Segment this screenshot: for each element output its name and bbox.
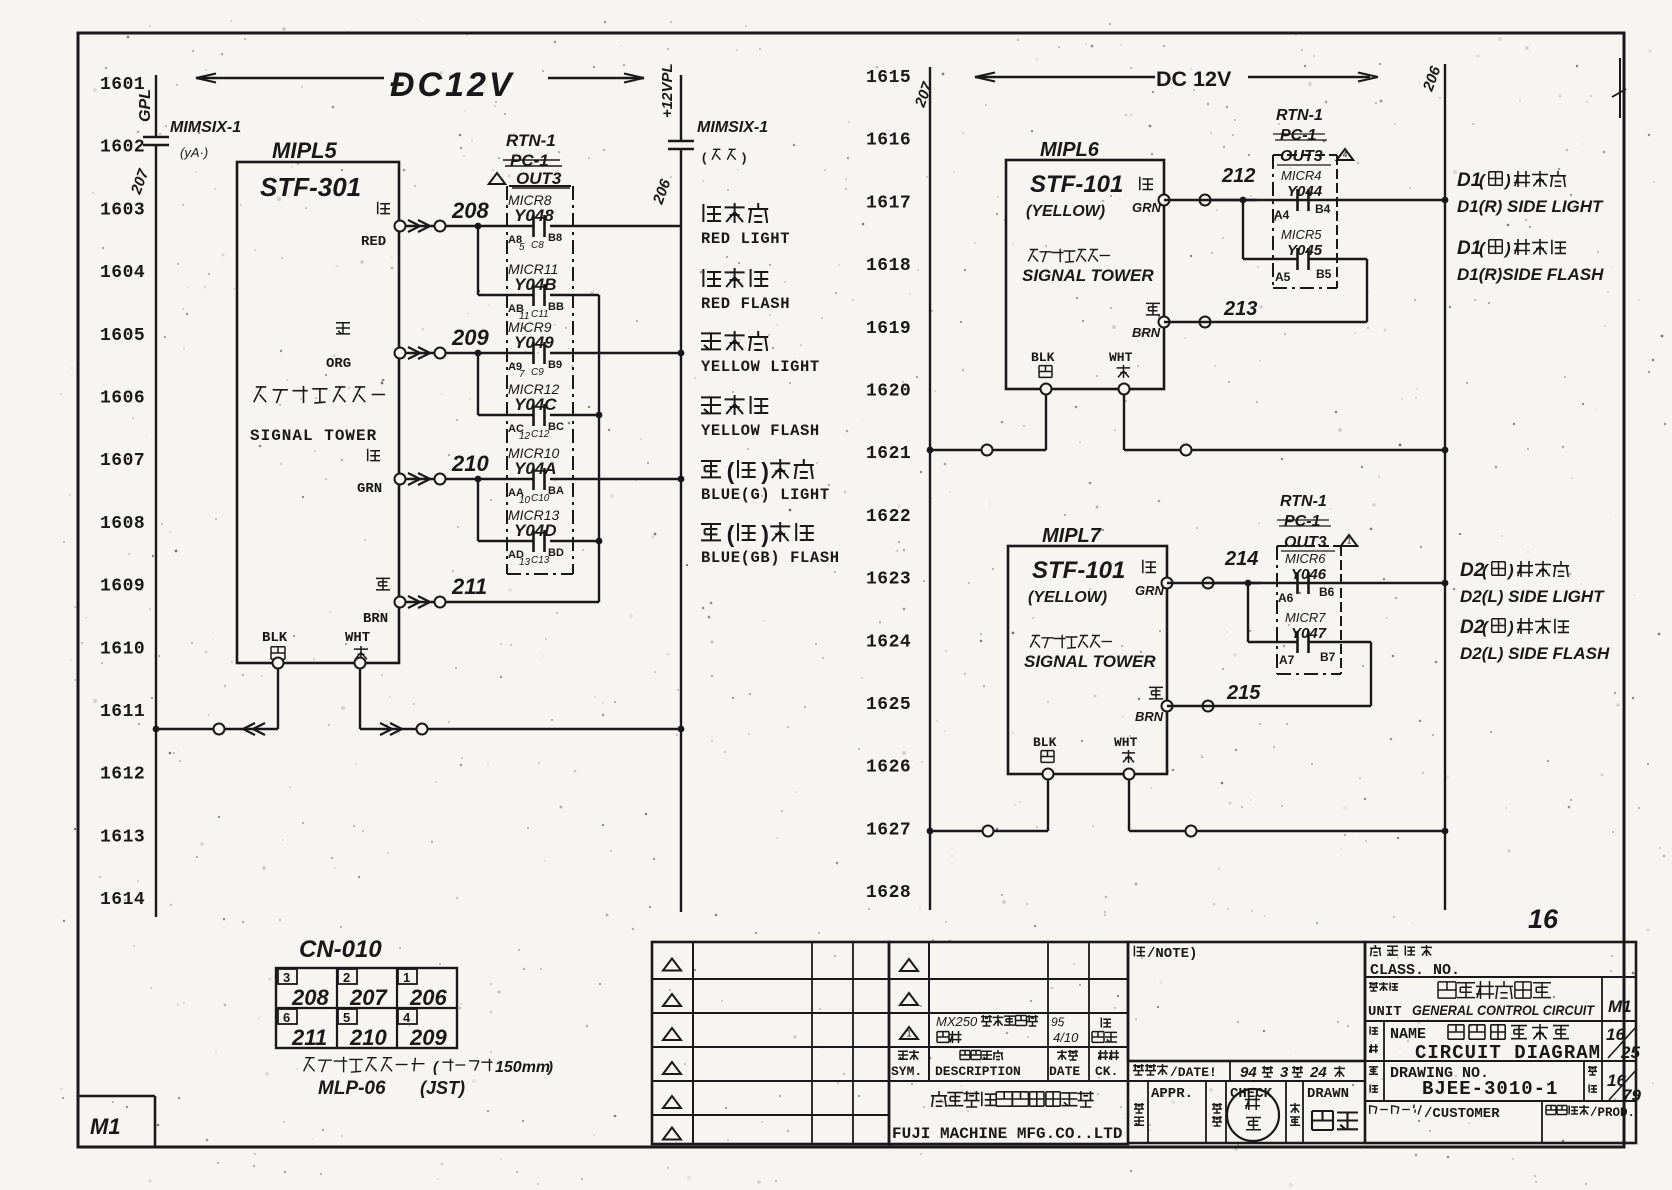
svg-text:SYM.: SYM. <box>891 1064 922 1079</box>
svg-text:25: 25 <box>1620 1043 1640 1062</box>
svg-text:M1: M1 <box>1608 997 1632 1016</box>
svg-text:B8: B8 <box>548 232 562 244</box>
svg-text:(YELLOW): (YELLOW) <box>1026 203 1105 220</box>
svg-text:OUT3: OUT3 <box>516 169 562 188</box>
svg-text:24: 24 <box>1309 1064 1327 1081</box>
svg-text:): ) <box>761 521 769 547</box>
svg-text:206: 206 <box>409 985 447 1010</box>
svg-text:BRN: BRN <box>363 611 388 627</box>
svg-text:OUT3: OUT3 <box>1284 534 1327 551</box>
svg-text:2: 2 <box>343 970 350 985</box>
svg-text:1: 1 <box>906 1029 911 1039</box>
svg-text:212: 212 <box>1221 165 1255 187</box>
svg-text:213: 213 <box>1223 298 1257 320</box>
svg-text:1609: 1609 <box>100 577 145 597</box>
svg-text:1601: 1601 <box>100 75 145 95</box>
svg-text:RTN-1: RTN-1 <box>1280 493 1327 510</box>
svg-text:B5: B5 <box>1316 267 1332 281</box>
svg-text:YELLOW LIGHT: YELLOW LIGHT <box>701 358 820 376</box>
svg-text:GRN: GRN <box>1135 583 1165 598</box>
svg-text:16: 16 <box>1528 904 1559 934</box>
svg-text:C10: C10 <box>531 493 550 504</box>
svg-text:215: 215 <box>1226 682 1261 704</box>
svg-text:1620: 1620 <box>866 382 911 402</box>
svg-text:YELLOW FLASH: YELLOW FLASH <box>701 422 820 440</box>
svg-text:Y047: Y047 <box>1291 625 1327 642</box>
svg-text:BRN: BRN <box>1132 325 1161 340</box>
svg-text:1602: 1602 <box>100 138 145 158</box>
svg-text:APPR.: APPR. <box>1151 1086 1193 1102</box>
svg-text:1625: 1625 <box>866 695 911 715</box>
svg-text:MIMSIX-1: MIMSIX-1 <box>170 119 241 136</box>
svg-text:PC-1: PC-1 <box>1284 513 1321 530</box>
svg-text:13: 13 <box>519 557 531 568</box>
svg-text:GRN: GRN <box>357 481 382 497</box>
svg-text:FUJI MACHINE MFG.CO..LTD: FUJI MACHINE MFG.CO..LTD <box>892 1125 1122 1143</box>
svg-text:1622: 1622 <box>866 507 911 527</box>
svg-text:STF-301: STF-301 <box>260 172 361 202</box>
svg-text:DATE: DATE <box>1049 1064 1080 1079</box>
svg-text:4: 4 <box>1343 151 1348 160</box>
svg-text:): ) <box>1506 561 1514 580</box>
svg-text:208: 208 <box>451 198 489 223</box>
svg-text:M1: M1 <box>90 1114 121 1139</box>
svg-text:SIGNAL TOWER: SIGNAL TOWER <box>1024 652 1156 671</box>
svg-text:1618: 1618 <box>866 256 911 276</box>
svg-text:1605: 1605 <box>100 326 145 346</box>
svg-text:4/10: 4/10 <box>1053 1030 1079 1045</box>
svg-text:209: 209 <box>409 1025 447 1050</box>
svg-text:MICR6: MICR6 <box>1285 551 1326 566</box>
svg-text:(YELLOW): (YELLOW) <box>1028 589 1107 606</box>
svg-text:MICR4: MICR4 <box>1281 168 1321 183</box>
svg-text:+12VPL: +12VPL <box>659 63 676 118</box>
svg-text:UNIT: UNIT <box>1368 1004 1402 1020</box>
svg-text:D1(R) SIDE LIGHT: D1(R) SIDE LIGHT <box>1457 197 1604 216</box>
svg-text:5: 5 <box>519 242 525 253</box>
svg-text:Y04A: Y04A <box>514 459 557 478</box>
svg-text:A5: A5 <box>1275 270 1291 284</box>
svg-text:94: 94 <box>1240 1064 1257 1081</box>
svg-text:1610: 1610 <box>100 639 145 659</box>
svg-text:A6: A6 <box>1278 591 1294 605</box>
svg-text:1627: 1627 <box>866 820 911 840</box>
svg-text:MIPL5: MIPL5 <box>272 138 338 163</box>
svg-text:PC-1: PC-1 <box>1280 127 1317 144</box>
svg-text:1606: 1606 <box>100 389 145 409</box>
svg-text:3: 3 <box>283 970 290 985</box>
svg-text:1613: 1613 <box>100 827 145 847</box>
svg-text:1607: 1607 <box>100 451 145 471</box>
svg-text:Y049: Y049 <box>514 333 554 352</box>
svg-text:3: 3 <box>1280 1064 1289 1081</box>
svg-text:BLUE(GB) FLASH: BLUE(GB) FLASH <box>701 549 840 567</box>
svg-text:BLK: BLK <box>262 630 288 646</box>
svg-text:BB: BB <box>548 301 564 313</box>
svg-text:(: ( <box>702 150 707 165</box>
svg-text:C12: C12 <box>531 429 550 440</box>
svg-text:WHT: WHT <box>345 630 370 646</box>
svg-text:5: 5 <box>343 1010 350 1025</box>
svg-text:RED: RED <box>361 234 386 250</box>
svg-text:BJEE-3010-1: BJEE-3010-1 <box>1422 1078 1558 1100</box>
svg-text:GENERAL CONTROL CIRCUIT: GENERAL CONTROL CIRCUIT <box>1412 1002 1595 1018</box>
svg-text:DESCRIPTION: DESCRIPTION <box>935 1064 1021 1079</box>
svg-text:CIRCUIT DIAGRAM: CIRCUIT DIAGRAM <box>1415 1042 1601 1064</box>
svg-text:4: 4 <box>403 1010 411 1025</box>
svg-text:209: 209 <box>451 325 489 350</box>
svg-text:BC: BC <box>548 421 564 433</box>
svg-text:): ) <box>742 150 746 165</box>
svg-text:MIMSIX-1: MIMSIX-1 <box>697 119 768 136</box>
svg-text:C13: C13 <box>531 555 550 566</box>
svg-text:B7: B7 <box>1320 650 1336 664</box>
svg-text:CN-010: CN-010 <box>299 936 382 963</box>
svg-text:CLASS. NO.: CLASS. NO. <box>1370 962 1460 979</box>
svg-text:1615: 1615 <box>866 68 911 88</box>
svg-text:A4: A4 <box>1274 208 1290 222</box>
svg-text:Y044: Y044 <box>1287 183 1323 200</box>
svg-text:): ) <box>1506 618 1514 637</box>
svg-text:10: 10 <box>519 495 531 506</box>
svg-text:ORG: ORG <box>326 356 351 372</box>
svg-text:210: 210 <box>349 1025 387 1050</box>
svg-text:RTN-1: RTN-1 <box>1276 107 1323 124</box>
svg-text:MIPL7: MIPL7 <box>1042 525 1102 547</box>
svg-text:D1: D1 <box>1457 238 1481 259</box>
svg-text:/NOTE): /NOTE) <box>1147 946 1197 962</box>
svg-text:(yA·): (yA·) <box>180 145 208 160</box>
svg-text:1614: 1614 <box>100 890 145 910</box>
svg-text:211: 211 <box>291 1025 327 1050</box>
svg-text:MICR7: MICR7 <box>1285 610 1326 625</box>
svg-text:): ) <box>1503 171 1511 190</box>
svg-text:RED FLASH: RED FLASH <box>701 295 790 313</box>
svg-text:WHT: WHT <box>1114 735 1138 750</box>
svg-text:D1(R)SIDE FLASH: D1(R)SIDE FLASH <box>1457 265 1604 284</box>
svg-text:Y04D: Y04D <box>514 521 557 540</box>
svg-text:B9: B9 <box>548 359 562 371</box>
svg-text:95: 95 <box>1051 1015 1065 1029</box>
svg-text:Y046: Y046 <box>1291 566 1327 583</box>
svg-text:DRAWN: DRAWN <box>1307 1086 1349 1102</box>
svg-text:Y04C: Y04C <box>514 395 557 414</box>
svg-text:D2: D2 <box>1460 617 1485 638</box>
svg-text:1608: 1608 <box>100 514 145 534</box>
svg-text:1624: 1624 <box>866 632 911 652</box>
svg-text:BLK: BLK <box>1031 350 1055 365</box>
svg-text:STF-101: STF-101 <box>1030 171 1123 198</box>
svg-text:(: ( <box>727 521 735 547</box>
svg-text:(JST): (JST) <box>420 1078 465 1098</box>
svg-text:Y04B: Y04B <box>514 275 557 294</box>
svg-text:1: 1 <box>403 970 410 985</box>
svg-text:A7: A7 <box>1279 653 1295 667</box>
svg-text:WHT: WHT <box>1109 350 1133 365</box>
svg-text:150mm: 150mm <box>495 1059 550 1076</box>
svg-text:(: ( <box>727 458 735 484</box>
svg-text:RED LIGHT: RED LIGHT <box>701 230 790 248</box>
svg-text:/PROD.: /PROD. <box>1590 1106 1635 1120</box>
svg-text:B6: B6 <box>1319 585 1335 599</box>
svg-text:OUT3: OUT3 <box>1280 148 1323 165</box>
svg-text:BA: BA <box>548 485 564 497</box>
svg-text:1619: 1619 <box>866 319 911 339</box>
svg-text:): ) <box>761 458 769 484</box>
svg-text:MICR5: MICR5 <box>1281 227 1322 242</box>
svg-text:211: 211 <box>451 574 487 599</box>
svg-text:DC 12V: DC 12V <box>1156 67 1232 91</box>
svg-text:1621: 1621 <box>866 444 911 464</box>
svg-text:SIGNAL TOWER: SIGNAL TOWER <box>1022 266 1154 285</box>
svg-text:B4: B4 <box>1315 202 1331 216</box>
svg-text:1623: 1623 <box>866 570 911 590</box>
svg-text:207: 207 <box>349 985 388 1010</box>
svg-text:BLUE(G) LIGHT: BLUE(G) LIGHT <box>701 486 830 504</box>
svg-text:1603: 1603 <box>100 200 145 220</box>
svg-text:D1: D1 <box>1457 170 1481 191</box>
svg-text:1604: 1604 <box>100 263 145 283</box>
svg-text:MLP-06: MLP-06 <box>318 1078 386 1099</box>
svg-text:Y045: Y045 <box>1287 242 1323 259</box>
svg-text:BD: BD <box>548 547 564 559</box>
svg-text:MX250: MX250 <box>936 1014 978 1029</box>
svg-text:SIGNAL TOWER: SIGNAL TOWER <box>250 427 377 445</box>
svg-text:214: 214 <box>1224 548 1258 570</box>
svg-text:BLK: BLK <box>1033 735 1057 750</box>
svg-text:BRN: BRN <box>1135 709 1164 724</box>
svg-text:C8: C8 <box>531 240 544 251</box>
svg-text:MIPL6: MIPL6 <box>1040 139 1100 161</box>
svg-text:1628: 1628 <box>866 883 911 903</box>
svg-text:): ) <box>546 1059 553 1076</box>
svg-text:C9: C9 <box>531 367 544 378</box>
svg-text:210: 210 <box>451 451 489 476</box>
svg-text:1626: 1626 <box>866 758 911 778</box>
svg-text:12: 12 <box>519 431 531 442</box>
svg-text:ĐC12V: ĐC12V <box>390 66 515 104</box>
svg-text:Y048: Y048 <box>514 206 554 225</box>
svg-text:6: 6 <box>283 1010 290 1025</box>
svg-text:1616: 1616 <box>866 131 911 151</box>
svg-text:NAME: NAME <box>1390 1026 1426 1043</box>
svg-text:1612: 1612 <box>100 765 145 785</box>
svg-text:208: 208 <box>291 985 329 1010</box>
svg-text:1: 1 <box>1347 537 1352 546</box>
svg-text:D2(L) SIDE FLASH: D2(L) SIDE FLASH <box>1460 644 1610 663</box>
svg-text:1617: 1617 <box>866 193 911 213</box>
svg-text:7: 7 <box>519 369 525 380</box>
svg-text:): ) <box>1503 239 1511 258</box>
svg-text:1611: 1611 <box>100 702 145 722</box>
svg-text:CK.: CK. <box>1095 1064 1118 1079</box>
svg-text:STF-101: STF-101 <box>1032 557 1125 584</box>
svg-text:/CUSTOMER: /CUSTOMER <box>1424 1106 1500 1122</box>
svg-text:D2(L) SIDE LIGHT: D2(L) SIDE LIGHT <box>1460 587 1605 606</box>
svg-text:RTN-1: RTN-1 <box>506 131 556 150</box>
svg-text:GRN: GRN <box>1132 200 1162 215</box>
svg-text:D2: D2 <box>1460 560 1485 581</box>
svg-text:/DATE!: /DATE! <box>1170 1065 1217 1080</box>
svg-text:79: 79 <box>1622 1086 1641 1105</box>
